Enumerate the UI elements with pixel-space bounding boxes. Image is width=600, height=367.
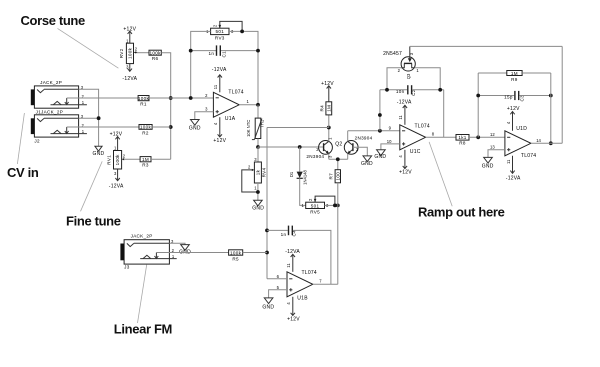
- svg-text:12: 12: [490, 132, 495, 137]
- resistor R3 1M: [140, 157, 151, 168]
- svg-text:TH1: TH1: [259, 119, 264, 128]
- svg-text:1n: 1n: [208, 51, 214, 56]
- wire U1B output: [313, 283, 338, 285]
- wire output feedback right rail: [561, 46, 563, 143]
- wire top feedback rail to JFET: [410, 45, 562, 47]
- wire Q2 base to ground: [353, 147, 367, 156]
- svg-text:GND: GND: [374, 154, 386, 160]
- svg-text:501: 501: [311, 203, 320, 208]
- junction integrator input node: [378, 129, 382, 133]
- ground symbol (U1D pin13): [482, 157, 494, 169]
- ground symbol (jacks): [92, 146, 104, 157]
- svg-text:RV5: RV5: [310, 210, 320, 215]
- wire R8 to U1D pin12: [469, 136, 505, 138]
- wire RV2 wiper to R6: [137, 52, 149, 54]
- svg-text:Q2: Q2: [335, 141, 342, 147]
- capacitor C4 1n: [267, 226, 331, 285]
- junction C1 left: [189, 49, 193, 53]
- svg-text:100k: 100k: [138, 96, 150, 101]
- svg-text:J3: J3: [124, 265, 130, 270]
- svg-text:JACK_2P: JACK_2P: [40, 80, 62, 85]
- junction on R1 line: [169, 96, 173, 100]
- svg-text:R8: R8: [459, 140, 466, 145]
- leader line from "Corse tune" to RV2: [58, 28, 119, 68]
- svg-text:R5: R5: [232, 256, 239, 261]
- svg-text:D1: D1: [289, 171, 294, 177]
- svg-text:-12VA: -12VA: [397, 99, 412, 105]
- wire expo node to Q1 base: [258, 146, 324, 148]
- trimmer RV5 501: [302, 196, 335, 215]
- svg-text:+12V: +12V: [110, 132, 123, 138]
- svg-text:R7: R7: [329, 173, 334, 180]
- svg-text:U1C: U1C: [410, 149, 421, 155]
- svg-text:-12VA: -12VA: [122, 76, 137, 82]
- op-amp U1C TL074: [387, 99, 435, 175]
- svg-text:501: 501: [216, 29, 225, 34]
- junction C3 left: [476, 94, 480, 98]
- capacitor C1 1n: [191, 45, 258, 57]
- wire JFET drain down to C2 right: [415, 68, 441, 90]
- wire Q2 collector to U1C pin9: [348, 130, 400, 132]
- svg-text:100k: 100k: [115, 154, 120, 166]
- svg-text:U1B: U1B: [297, 295, 308, 301]
- svg-text:GND: GND: [92, 151, 104, 157]
- junction U1A output node: [256, 103, 260, 107]
- svg-text:11: 11: [286, 263, 291, 268]
- svg-text:Ramp out here: Ramp out here: [418, 205, 505, 220]
- svg-text:+12V: +12V: [399, 170, 412, 176]
- junction emitter node: [336, 157, 340, 161]
- svg-text:Corse tune: Corse tune: [21, 13, 86, 28]
- svg-text:11: 11: [213, 84, 218, 89]
- transistor Q1 2N3904: [306, 128, 342, 160]
- svg-text:TL074: TL074: [415, 124, 430, 130]
- svg-text:R9: R9: [511, 77, 518, 82]
- svg-text:C1: C1: [221, 51, 226, 58]
- svg-text:U1A: U1A: [225, 116, 236, 122]
- trimmer RV3 501 (feedback): [206, 21, 242, 40]
- svg-text:R2: R2: [142, 130, 149, 135]
- svg-text:R4: R4: [319, 105, 324, 112]
- svg-text:13: 13: [490, 145, 495, 150]
- resistor R4 1M (collector to +12V): [319, 81, 334, 128]
- wire RV5 pin3 to R7 node: [325, 204, 338, 206]
- junction on R2 line: [169, 125, 173, 129]
- ground symbol (U1B pin5): [262, 298, 274, 311]
- ground symbol (U1A pin3): [189, 120, 201, 132]
- wire U1D pin13 to ground: [488, 150, 505, 158]
- svg-text:GND: GND: [361, 161, 373, 167]
- junction feedback at U1D output: [549, 141, 553, 145]
- ground symbol (J3): [179, 245, 191, 256]
- svg-text:GND: GND: [482, 163, 494, 169]
- wire R3 to summing rail: [151, 158, 171, 160]
- feedback rail x267 (collector node down to U1B pin6): [266, 128, 268, 279]
- leader line from "Linear FM" to jack J3: [138, 265, 147, 323]
- wire common emitters: [329, 158, 348, 160]
- wire J2 pin3 to ground rail: [79, 117, 99, 119]
- svg-text:2N5457: 2N5457: [383, 51, 402, 57]
- svg-text:1M: 1M: [142, 157, 149, 162]
- junction R5 node: [265, 251, 269, 255]
- junction TH1 bottom node: [256, 145, 260, 149]
- resistor R9 1M: [478, 71, 551, 82]
- leader line from "Fine tune" to RV1: [81, 161, 103, 211]
- svg-text:Linear FM: Linear FM: [114, 322, 172, 337]
- svg-text:R6: R6: [152, 56, 159, 61]
- wire C2 left down to integrator input: [379, 90, 381, 131]
- wire JFET source down to C2 left: [387, 68, 401, 90]
- svg-text:J1JACK_2P: J1JACK_2P: [36, 110, 63, 115]
- svg-text:JACK_2P: JACK_2P: [131, 233, 153, 238]
- wire collector node to U1B feedback rail: [267, 127, 329, 129]
- svg-text:-12VA: -12VA: [109, 183, 124, 189]
- junction C3 right: [549, 94, 553, 98]
- wire feedback right leg to output: [550, 73, 552, 143]
- wire R2 to summing rail: [152, 126, 171, 128]
- capacitor C2 10n: [380, 85, 444, 96]
- resistor R5 100k: [229, 250, 243, 261]
- wire U1A output: [239, 104, 258, 106]
- junction C1 right: [256, 49, 260, 53]
- ground symbol (Q2 base): [361, 156, 373, 167]
- svg-text:-12VA: -12VA: [285, 249, 300, 255]
- op-amp U1D TL074: [490, 106, 542, 181]
- svg-text:1n: 1n: [281, 232, 287, 237]
- svg-text:RV2: RV2: [119, 48, 124, 58]
- junction on integrator rail: [378, 113, 382, 117]
- wire J3 pin3 to ground: [169, 243, 185, 245]
- svg-text:100k: 100k: [150, 50, 162, 55]
- svg-text:15p: 15p: [504, 95, 513, 100]
- svg-text:100k: 100k: [140, 125, 152, 130]
- potentiometer RV1 100k (fine tune): [107, 132, 126, 190]
- transistor Q2 2N3904: [344, 131, 372, 160]
- svg-text:100: 100: [335, 172, 340, 181]
- svg-text:+12V: +12V: [213, 138, 226, 144]
- wire U1C output to R8: [426, 136, 456, 138]
- svg-text:GND: GND: [189, 125, 201, 131]
- svg-text:10K NTC: 10K NTC: [246, 120, 251, 137]
- wire R5 to U1B input rail: [243, 252, 267, 254]
- wire RV3 pin1 to inverting node rail: [191, 31, 211, 98]
- svg-text:TL074: TL074: [521, 153, 536, 159]
- svg-text:-12VA: -12VA: [212, 67, 227, 73]
- svg-text:CV in: CV in: [7, 165, 39, 180]
- svg-text:R1: R1: [140, 102, 147, 107]
- wire feedback left leg: [477, 73, 479, 137]
- svg-text:RV1: RV1: [107, 155, 112, 165]
- wire RV1 wiper to R3: [124, 158, 140, 160]
- resistor R2 100k: [139, 125, 152, 136]
- svg-text:RV4: RV4: [262, 167, 267, 177]
- svg-text:Fine tune: Fine tune: [66, 214, 121, 229]
- wire J1 pin2 to R1: [67, 97, 138, 99]
- trimmer RV4 1k: [242, 147, 267, 200]
- wire J2 pin2 to R2: [67, 126, 139, 128]
- JFET Q3 2N5457: [383, 46, 419, 79]
- ground symbol (RV4): [252, 200, 264, 211]
- thermistor TH1 10K NTC: [246, 105, 265, 147]
- wire U1B pin6: [267, 278, 287, 280]
- svg-text:+12V: +12V: [507, 106, 520, 112]
- svg-text:Q3: Q3: [406, 73, 411, 79]
- op-amp U1A TL074: [205, 67, 249, 144]
- resistor R7 100: [329, 159, 341, 205]
- svg-text:+12V: +12V: [287, 316, 300, 322]
- wire U1A pin3 to ground: [195, 112, 214, 120]
- op-amp U1B TL074: [277, 249, 323, 323]
- svg-text:1k: 1k: [255, 169, 260, 175]
- svg-text:1N4148: 1N4148: [302, 169, 307, 184]
- svg-text:J2: J2: [34, 139, 40, 144]
- svg-text:+12V: +12V: [321, 81, 334, 87]
- svg-text:2N3904: 2N3904: [355, 136, 373, 141]
- junction RV5 wiper tie: [333, 204, 337, 208]
- junction RV4 bottom: [256, 190, 260, 194]
- svg-text:100k: 100k: [128, 47, 133, 59]
- svg-text:R3: R3: [142, 163, 149, 168]
- diode D1 1N4148: [289, 147, 307, 205]
- junction Q1 collector node: [327, 126, 331, 130]
- wire R6 to summing rail: [161, 53, 170, 160]
- svg-text:GND: GND: [252, 206, 264, 212]
- junction inverting node: [189, 96, 193, 100]
- svg-text:2N3904: 2N3904: [306, 154, 324, 159]
- resistor R8 1k1: [456, 135, 469, 146]
- wire U1C pin10 to ground: [381, 144, 400, 150]
- junction R9/C3 left leg: [476, 135, 480, 139]
- refdes J1 and jack J2 JACK_2P: [31, 110, 87, 144]
- junction RV3 wiper tie: [240, 30, 244, 34]
- resistor R1 100k: [138, 96, 150, 107]
- wire RV3 pin3 to output rail: [229, 31, 258, 104]
- svg-text:1M: 1M: [326, 105, 331, 112]
- wire J3 pin2 to R5: [156, 252, 228, 254]
- wire C2 right down to U1C output: [443, 90, 445, 138]
- jack J3 JACK_2P (linear FM): [120, 233, 176, 269]
- wire U1D output pin14: [531, 142, 562, 144]
- svg-text:10n: 10n: [396, 89, 405, 94]
- capacitor C3 15p: [478, 91, 551, 102]
- resistor R6 100k: [149, 50, 161, 61]
- wire R1 to U1A inverting input: [149, 97, 213, 99]
- svg-text:TL074: TL074: [302, 270, 317, 276]
- svg-text:-12VA: -12VA: [506, 176, 521, 182]
- wire R7 node down to U1B output: [337, 205, 339, 284]
- junction R7 bottom node: [336, 204, 340, 208]
- leader line from "CV in" to jacks: [17, 113, 24, 164]
- svg-text:11: 11: [398, 115, 403, 120]
- junction C4 left: [265, 229, 269, 233]
- svg-text:1M: 1M: [511, 71, 518, 76]
- junction D1 top: [298, 145, 302, 149]
- junction C2 right (drain): [438, 88, 442, 92]
- jack J1 JACK_2P (CV input): [31, 80, 87, 108]
- potentiometer RV2 100k (coarse tune): [119, 26, 138, 82]
- wire U1B pin5 to ground: [269, 290, 287, 298]
- svg-text:TL074: TL074: [228, 90, 243, 96]
- svg-text:GND: GND: [262, 304, 274, 310]
- wire J1 pin3 to ground rail: [79, 89, 99, 146]
- svg-text:11: 11: [506, 159, 511, 164]
- ground symbol (U1C pin10): [374, 150, 386, 160]
- svg-text:14: 14: [536, 138, 541, 143]
- junction C2 left (gate): [385, 88, 389, 92]
- svg-text:U1D: U1D: [516, 126, 527, 132]
- svg-text:100k: 100k: [230, 250, 242, 255]
- junction J2 pin3: [97, 116, 101, 120]
- leader line from "Ramp out here" to U1C output: [429, 142, 452, 206]
- svg-text:RV3: RV3: [215, 35, 225, 40]
